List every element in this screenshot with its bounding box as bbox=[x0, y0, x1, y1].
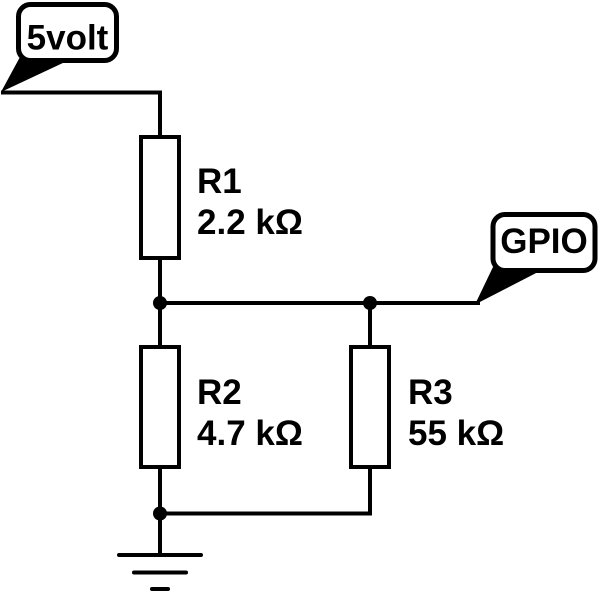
net label GPIO bbox=[475, 215, 595, 305]
svg-text:R1: R1 bbox=[197, 162, 242, 201]
wire bus node A to GPIO bbox=[160, 301, 480, 305]
wire node B to R3 top bbox=[368, 303, 372, 347]
svg-text:GPIO: GPIO bbox=[500, 222, 588, 261]
resistor R2 bbox=[141, 347, 303, 467]
wire 5volt tail to R1 top bbox=[1, 93, 160, 138]
ground bbox=[119, 514, 201, 590]
wire R3 bottom to node C bbox=[160, 467, 370, 514]
svg-text:2.2 kΩ: 2.2 kΩ bbox=[197, 203, 303, 242]
wire R2 bottom to node C bbox=[158, 467, 162, 514]
node B junction bbox=[363, 296, 377, 310]
wire R1 bottom to node A bbox=[158, 258, 162, 303]
wire node A to R2 top bbox=[158, 303, 162, 347]
svg-text:5volt: 5volt bbox=[27, 19, 109, 58]
node C junction bbox=[153, 507, 167, 521]
svg-text:55 kΩ: 55 kΩ bbox=[408, 414, 504, 453]
net label 5volt bbox=[1, 5, 117, 93]
resistor R3 bbox=[351, 347, 504, 467]
svg-text:R3: R3 bbox=[408, 373, 453, 412]
svg-text:R2: R2 bbox=[197, 373, 242, 412]
node A junction bbox=[153, 296, 167, 310]
resistor R1 bbox=[141, 137, 303, 258]
svg-text:4.7 kΩ: 4.7 kΩ bbox=[197, 414, 303, 453]
